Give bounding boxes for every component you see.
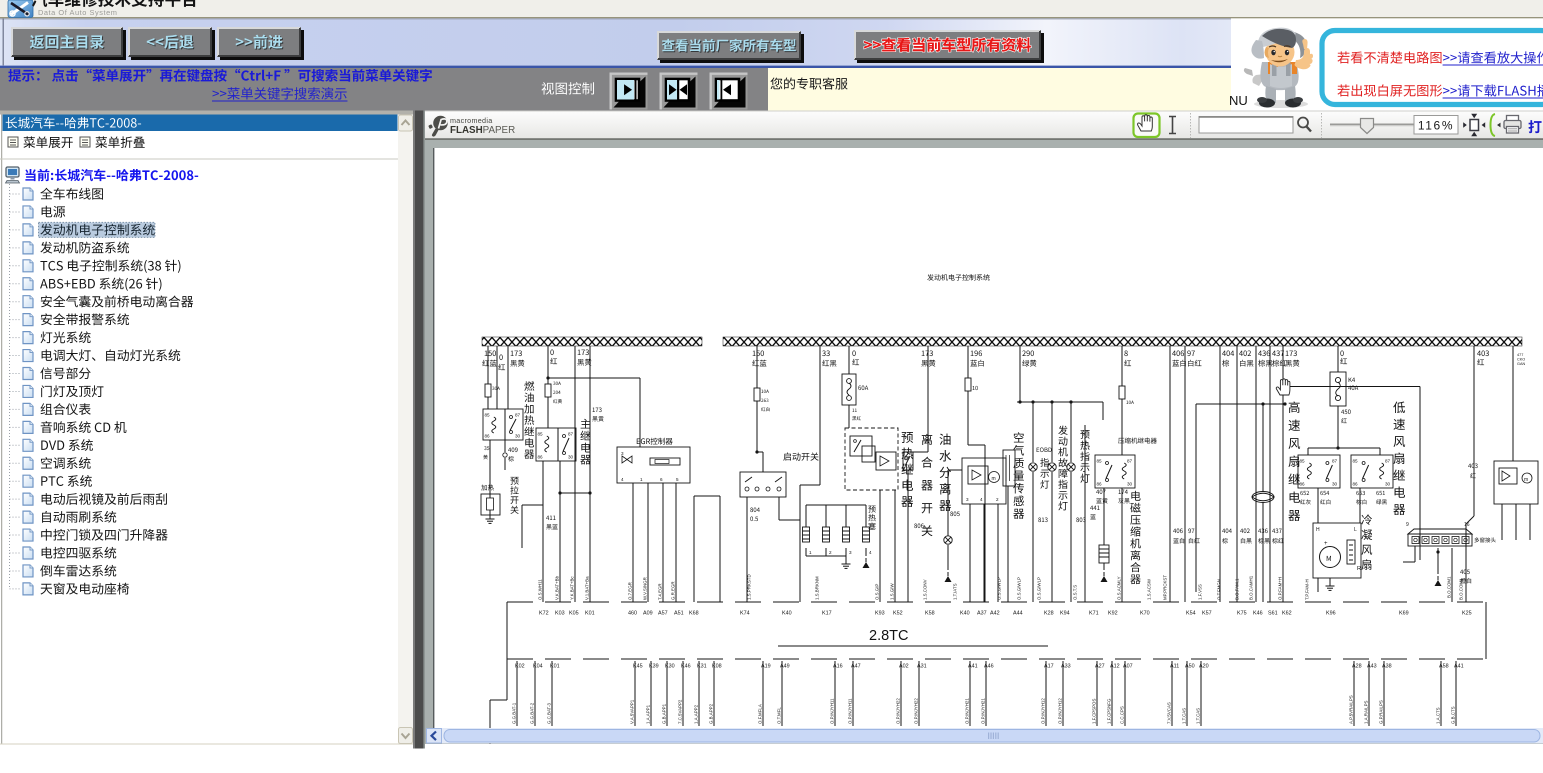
svg-text:K93: K93 — [875, 611, 885, 617]
svg-text:A58: A58 — [1439, 664, 1449, 670]
svg-text:A17: A17 — [1044, 664, 1054, 670]
svg-text:O.F.MFLA: O.F.MFLA — [758, 704, 763, 724]
svg-text:A33: A33 — [1061, 664, 1071, 670]
svg-text:G.G.BAT-1: G.G.BAT-1 — [512, 702, 517, 724]
svg-text:7.C.5VAPP2: 7.C.5VAPP2 — [678, 699, 683, 724]
svg-text:K05: K05 — [569, 611, 579, 617]
svg-text:85: 85 — [1300, 459, 1306, 464]
svg-text:86: 86 — [538, 455, 544, 460]
svg-text:460: 460 — [628, 611, 637, 617]
svg-text:O.S.ACMLY: O.S.ACMLY — [1117, 576, 1122, 600]
svg-text:K03: K03 — [555, 611, 565, 617]
svg-text:K96: K96 — [1326, 611, 1336, 617]
svg-text:K40: K40 — [782, 611, 792, 617]
svg-text:6: 6 — [660, 477, 663, 482]
svg-text:A46: A46 — [984, 664, 994, 670]
svg-text:T.P.FAM-H: T.P.FAM-H — [1305, 579, 1310, 600]
svg-text:T.4.EGR: T.4.EGR — [658, 583, 663, 600]
svg-text:B.O.CAMH1: B.O.CAMH1 — [1249, 575, 1254, 600]
svg-text:R: R — [1357, 566, 1361, 572]
svg-text:G.P.RAILPS: G.P.RAILPS — [1379, 700, 1384, 724]
svg-text:A12: A12 — [1110, 664, 1120, 670]
svg-text:1.S.PRKSTD: 1.S.PRKSTD — [747, 574, 752, 600]
svg-text:85: 85 — [538, 432, 544, 437]
svg-text:m: m — [1524, 477, 1528, 483]
svg-text:1.T.CAS: 1.T.CAS — [1182, 708, 1187, 724]
svg-text:K58: K58 — [925, 611, 935, 617]
svg-text:K04: K04 — [533, 664, 543, 670]
svg-text:86: 86 — [1300, 482, 1306, 487]
svg-text:1.A.RAILPS: 1.A.RAILPS — [1364, 701, 1369, 724]
svg-text:30: 30 — [515, 434, 521, 439]
svg-text:O.P.INJYH21: O.P.INJYH21 — [981, 698, 986, 724]
svg-text:K31: K31 — [697, 664, 707, 670]
svg-text:K08: K08 — [712, 664, 722, 670]
svg-text:Data Of Auto System: Data Of Auto System — [38, 8, 117, 17]
svg-text:O.S.WH11: O.S.WH11 — [538, 579, 543, 600]
svg-text:1.S.ACSW: 1.S.ACSW — [1147, 578, 1152, 600]
svg-text:30: 30 — [1127, 482, 1133, 487]
svg-text:H: H — [1316, 527, 1320, 533]
svg-text:1.S.GIW: 1.S.GIW — [890, 583, 895, 600]
svg-text:O.P.INJYH12: O.P.INJYH12 — [1058, 698, 1063, 724]
svg-text:O.S.GIWLP: O.S.GIWLP — [1017, 577, 1022, 600]
svg-text:A42: A42 — [990, 611, 1000, 617]
svg-text:G.B.CTS: G.B.CTS — [1451, 706, 1456, 724]
svg-text:1: 1 — [640, 477, 643, 482]
svg-text:9: 9 — [1406, 522, 1409, 528]
svg-text:K39: K39 — [649, 664, 659, 670]
svg-text:86: 86 — [485, 434, 491, 439]
svg-text:K45: K45 — [633, 664, 643, 670]
svg-text:B.O.COM1: B.O.COM1 — [1459, 578, 1464, 600]
svg-text:1.A.CTS: 1.A.CTS — [1436, 707, 1441, 724]
svg-text:K30: K30 — [665, 664, 675, 670]
svg-text:4: 4 — [621, 477, 624, 482]
svg-text:1.T.IATS: 1.T.IATS — [953, 583, 958, 600]
svg-text:1.A.APP2: 1.A.APP2 — [694, 704, 699, 724]
svg-text:Y.K.BAT+Bc: Y.K.BAT+Bc — [570, 576, 575, 600]
svg-text:A41: A41 — [1454, 664, 1464, 670]
svg-text:A16: A16 — [833, 664, 843, 670]
svg-text:K40: K40 — [960, 611, 970, 617]
svg-text:K70: K70 — [1140, 611, 1150, 617]
svg-text:m: m — [992, 476, 996, 482]
svg-text:1.S.BRKNM: 1.S.BRKNM — [815, 576, 820, 600]
svg-text:86: 86 — [1097, 482, 1103, 487]
svg-text:4: 4 — [980, 497, 983, 502]
svg-text:K02: K02 — [515, 664, 525, 670]
svg-text:K25: K25 — [1462, 611, 1472, 617]
svg-text:87: 87 — [1127, 459, 1133, 464]
svg-text:1.T.CAS: 1.T.CAS — [1196, 708, 1201, 724]
svg-text:3: 3 — [621, 451, 624, 456]
svg-text:K52: K52 — [893, 611, 903, 617]
svg-text:2: 2 — [829, 550, 832, 555]
svg-text:G.G.BAT-2: G.G.BAT-2 — [530, 702, 535, 724]
svg-text:A09: A09 — [643, 611, 653, 617]
svg-text:30: 30 — [1332, 482, 1338, 487]
svg-text:87: 87 — [1332, 459, 1338, 464]
svg-text:G.C.BAT-3: G.C.BAT-3 — [547, 703, 552, 724]
svg-text:S61: S61 — [1268, 611, 1278, 617]
svg-text:O.P.INJYH22: O.P.INJYH22 — [914, 698, 919, 724]
svg-text:NU: NU — [1229, 93, 1248, 108]
svg-text:A49: A49 — [780, 664, 790, 670]
svg-text:A44: A44 — [1013, 611, 1023, 617]
svg-text:K92: K92 — [1108, 611, 1118, 617]
svg-text:87: 87 — [1385, 459, 1391, 464]
svg-text:G.B.APP2: G.B.APP2 — [709, 703, 714, 724]
svg-text:O.S.GIWLP: O.S.GIWLP — [1037, 577, 1042, 600]
svg-text:O.T.MFL: O.T.MFL — [777, 707, 782, 724]
svg-text:K57: K57 — [1202, 611, 1212, 617]
svg-text:K74: K74 — [740, 611, 750, 617]
svg-text:1.A.APP1: 1.A.APP1 — [646, 704, 651, 724]
svg-text:K71: K71 — [1089, 611, 1099, 617]
svg-text:K94: K94 — [1060, 611, 1070, 617]
svg-text:A11: A11 — [1170, 664, 1179, 670]
svg-text:O.S.GIWLP: O.S.GIWLP — [997, 577, 1002, 600]
svg-text:1.F.VSS: 1.F.VSS — [1198, 584, 1203, 600]
svg-text:O.S.T.S: O.S.T.S — [1073, 585, 1078, 600]
svg-text:K01: K01 — [585, 611, 595, 617]
svg-text:1: 1 — [809, 550, 812, 555]
svg-text:3: 3 — [966, 497, 969, 502]
svg-text:A47: A47 — [851, 664, 861, 670]
svg-text:K46: K46 — [1253, 611, 1263, 617]
svg-text:K54: K54 — [1186, 611, 1196, 617]
svg-text:85: 85 — [1353, 459, 1359, 464]
svg-text:O.P.INJYH21: O.P.INJYH21 — [965, 698, 970, 724]
svg-text:3: 3 — [849, 550, 852, 555]
svg-text:85: 85 — [1097, 459, 1103, 464]
svg-text:V.1.BAT+Ba: V.1.BAT+Ba — [585, 576, 590, 600]
svg-text:G.B.APP1: G.B.APP1 — [662, 703, 667, 724]
svg-text:B.O.FAM.1: B.O.FAM.1 — [1235, 578, 1240, 600]
svg-text:A50: A50 — [1185, 664, 1195, 670]
svg-text:1.F.CPSNFG: 1.F.CPSNFG — [1107, 698, 1112, 724]
svg-text:86: 86 — [1353, 482, 1359, 487]
svg-text:4: 4 — [869, 550, 872, 555]
svg-text:A43: A43 — [1367, 664, 1377, 670]
svg-text:K75: K75 — [1237, 611, 1247, 617]
svg-text:A37: A37 — [977, 611, 987, 617]
svg-text:O.7.EGR: O.7.EGR — [628, 582, 633, 600]
svg-text:A19: A19 — [761, 664, 771, 670]
svg-text:A57: A57 — [658, 611, 668, 617]
svg-text:A51: A51 — [674, 611, 684, 617]
svg-text:A20: A20 — [1199, 664, 1209, 670]
svg-text:O.P.FAM+H: O.P.FAM+H — [1278, 577, 1283, 600]
svg-text:V.A.5VAPP1: V.A.5VAPP1 — [630, 699, 635, 724]
svg-text:W.V.SINGR: W.V.SINGR — [643, 577, 648, 600]
svg-text:L: L — [1354, 527, 1357, 533]
svg-text:A.P.5VRAILPS: A.P.5VRAILPS — [1349, 695, 1354, 724]
svg-text:K17: K17 — [822, 611, 832, 617]
svg-text:GAN: GAN — [1517, 362, 1525, 366]
svg-text:FLASHPAPER: FLASHPAPER — [450, 125, 515, 136]
svg-text:K28: K28 — [1044, 611, 1054, 617]
svg-text:C.C.CPS: C.C.CPS — [1120, 706, 1125, 724]
svg-text:1.F.CPSPOS: 1.F.CPSPOS — [1092, 699, 1097, 724]
svg-text:85: 85 — [485, 413, 491, 418]
svg-text:O.S.GIP: O.S.GIP — [875, 584, 880, 600]
svg-text:87: 87 — [515, 413, 521, 418]
svg-text:O.P.INJYH11: O.P.INJYH11 — [848, 698, 853, 724]
svg-text:30: 30 — [1385, 482, 1391, 487]
svg-text:O.P.INJYH11: O.P.INJYH11 — [830, 698, 835, 724]
svg-text:G.R.EGR: G.R.EGR — [671, 581, 676, 600]
svg-text:5: 5 — [676, 477, 679, 482]
svg-text:K72: K72 — [539, 611, 549, 617]
svg-text:477: 477 — [1517, 353, 1523, 357]
svg-text:A07: A07 — [1123, 664, 1133, 670]
svg-text:B.O.COM1: B.O.COM1 — [1447, 576, 1452, 598]
svg-text:+: + — [1324, 541, 1328, 547]
svg-text:O.P.INJYH22: O.P.INJYH22 — [896, 698, 901, 724]
svg-text:K69: K69 — [1399, 611, 1409, 617]
svg-text:O.P.INJYH12: O.P.INJYH12 — [1041, 698, 1046, 724]
svg-text:A02: A02 — [899, 664, 909, 670]
svg-text:CKO: CKO — [1517, 358, 1525, 362]
svg-text:1.S.CONV: 1.S.CONV — [923, 579, 928, 600]
svg-text:K62: K62 — [1282, 611, 1292, 617]
svg-text:A41: A41 — [968, 664, 978, 670]
svg-text:A27: A27 — [1095, 664, 1105, 670]
svg-text:A28: A28 — [1352, 664, 1362, 670]
svg-text:MP.PRCKST: MP.PRCKST — [1163, 575, 1168, 600]
svg-text:V.K.BAT+Bb: V.K.BAT+Bb — [555, 575, 560, 600]
svg-text:K01: K01 — [550, 664, 560, 670]
svg-text:A31: A31 — [917, 664, 927, 670]
svg-text:K46: K46 — [681, 664, 691, 670]
svg-text:A38: A38 — [1382, 664, 1392, 670]
svg-text:87: 87 — [568, 432, 574, 437]
svg-text:7.V.5VCAS: 7.V.5VCAS — [1167, 702, 1172, 724]
svg-text:116%: 116% — [1418, 119, 1454, 133]
svg-text:2.8TC: 2.8TC — [869, 628, 909, 644]
svg-text:2: 2 — [996, 497, 999, 502]
svg-text:30: 30 — [568, 455, 574, 460]
svg-text:O.T.FMGN: O.T.FMGN — [1217, 579, 1222, 600]
svg-text:K68: K68 — [689, 611, 699, 617]
